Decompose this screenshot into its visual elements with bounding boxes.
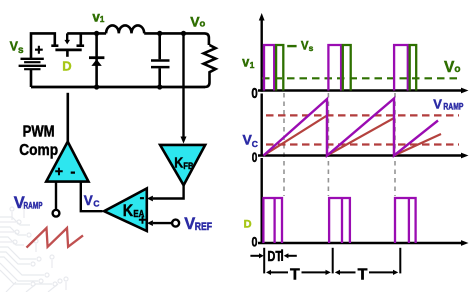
- op-amp U1 PWM comparator: [46, 142, 88, 182]
- node cap bottom: [157, 84, 162, 89]
- svg-text:Comp: Comp: [19, 142, 58, 159]
- svg-text:RAMP: RAMP: [24, 201, 43, 212]
- D waveform purple pulses: [263, 198, 415, 243]
- terminal VRAMP input: [53, 210, 60, 217]
- node diode bottom: [94, 84, 99, 89]
- svg-text:FB: FB: [183, 161, 193, 172]
- panel 1 axes (v1): [258, 20, 462, 92]
- terminal VREF: [172, 220, 179, 227]
- svg-text:V: V: [433, 97, 442, 112]
- decorative watermark traces: [0, 205, 68, 292]
- svg-text:v: v: [242, 54, 249, 69]
- svg-text:DT: DT: [267, 249, 282, 265]
- svg-text:-: -: [140, 189, 145, 205]
- op-amp KEA error amplifier: [104, 188, 147, 231]
- panel 2 axes (VC): [258, 94, 462, 156]
- wire ground rail: [31, 86, 205, 89]
- dimension ticks: [264, 248, 400, 274]
- DT dimension arrows: [250, 255, 259, 257]
- panel 3 axes (D): [258, 158, 462, 243]
- node v1: [94, 31, 99, 36]
- wire top rail v1 to Vo: [67, 33, 209, 45]
- T dimension arrows first period: [271, 271, 289, 273]
- svg-text:C: C: [252, 139, 258, 149]
- svg-text:0: 0: [251, 85, 257, 102]
- svg-text:0: 0: [252, 234, 258, 250]
- node VO: [181, 31, 186, 36]
- inductor L: [106, 25, 144, 33]
- svg-text:T: T: [290, 266, 300, 283]
- svg-text:V: V: [84, 193, 93, 208]
- battery source VS (top lead + plates + bottom lead): [31, 33, 55, 87]
- diode D1 (freewheeling): [89, 33, 104, 87]
- sawtooth ramp icon: [27, 228, 84, 248]
- svg-text:+: +: [55, 163, 63, 179]
- svg-text:T: T: [358, 266, 368, 283]
- v1 waveform purple pulses: [264, 45, 408, 91]
- load resistor R: [204, 45, 216, 87]
- svg-text:K: K: [123, 202, 133, 220]
- svg-text:V: V: [184, 215, 195, 233]
- VC bounds dashed red lines: [266, 115, 459, 144]
- wire D drive from comparator up: [67, 93, 70, 143]
- wire KFB output to KEA - input: [153, 184, 184, 199]
- wire VREF to KEA + input: [153, 222, 172, 224]
- wire comparator + input lead: [55, 182, 57, 210]
- node cap top: [157, 31, 162, 36]
- op-amp KFB feedback gain: [160, 145, 205, 185]
- svg-text:PWM: PWM: [23, 124, 55, 141]
- svg-text:+: +: [139, 213, 147, 228]
- svg-text:Vs: Vs: [301, 41, 314, 53]
- VO level dashed green line: [262, 77, 458, 79]
- capacitor C: [151, 33, 170, 87]
- transistor switch (MOSFET): [51, 33, 84, 56]
- v1 waveform green pulses: [276, 45, 416, 91]
- svg-text:RAMP: RAMP: [443, 102, 463, 112]
- VRAMP waveform purple sawtooth: [264, 99, 439, 156]
- svg-text:REF: REF: [195, 221, 213, 233]
- svg-text:C: C: [93, 198, 99, 208]
- VS level tick and label: [287, 45, 296, 47]
- VC error waveform red: [264, 116, 442, 156]
- svg-text:K: K: [174, 156, 183, 172]
- svg-text:1: 1: [250, 60, 255, 70]
- svg-text:0: 0: [252, 150, 258, 165]
- wire comparator - input to VC node: [81, 182, 103, 212]
- svg-text:D: D: [62, 59, 71, 74]
- svg-text:+: +: [35, 43, 43, 59]
- wire VO sense line down to KFB with arrowhead: [182, 33, 184, 136]
- T dimension arrows second period: [340, 271, 356, 273]
- timing guide dashed gray verticals: [284, 93, 395, 196]
- svg-text:D: D: [244, 218, 252, 230]
- svg-text:-: -: [70, 163, 75, 180]
